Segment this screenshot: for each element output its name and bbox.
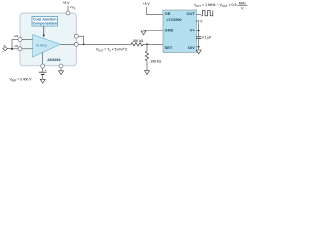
svg-text:MHz: MHz	[239, 1, 246, 5]
svg-text:AD8494: AD8494	[47, 58, 60, 62]
svg-text:+: +	[45, 68, 47, 72]
svg-text:DIV: DIV	[188, 45, 195, 50]
svg-text:+5 V: +5 V	[63, 1, 71, 5]
svg-text:+5 V: +5 V	[196, 19, 204, 23]
svg-text:196 kΩ: 196 kΩ	[150, 60, 161, 64]
svg-text:In-Amp: In-Amp	[36, 44, 47, 48]
svg-text:SET: SET	[165, 45, 173, 50]
svg-text:GND: GND	[165, 27, 174, 32]
svg-text:+IN: +IN	[14, 34, 19, 38]
svg-text:+5 V: +5 V	[143, 2, 151, 6]
svg-text:OUT: OUT	[186, 11, 195, 16]
svg-text:0.1 μF: 0.1 μF	[202, 35, 211, 39]
svg-text:OE: OE	[165, 11, 171, 16]
svg-text:LTC6990: LTC6990	[166, 18, 181, 22]
svg-text:−IN: −IN	[14, 44, 19, 48]
svg-text:166 kΩ: 166 kΩ	[133, 39, 144, 43]
svg-text:+: +	[3, 43, 5, 47]
svg-text:−: −	[2, 50, 4, 54]
svg-text:Compensation: Compensation	[33, 22, 57, 26]
svg-text:V+: V+	[190, 27, 196, 32]
